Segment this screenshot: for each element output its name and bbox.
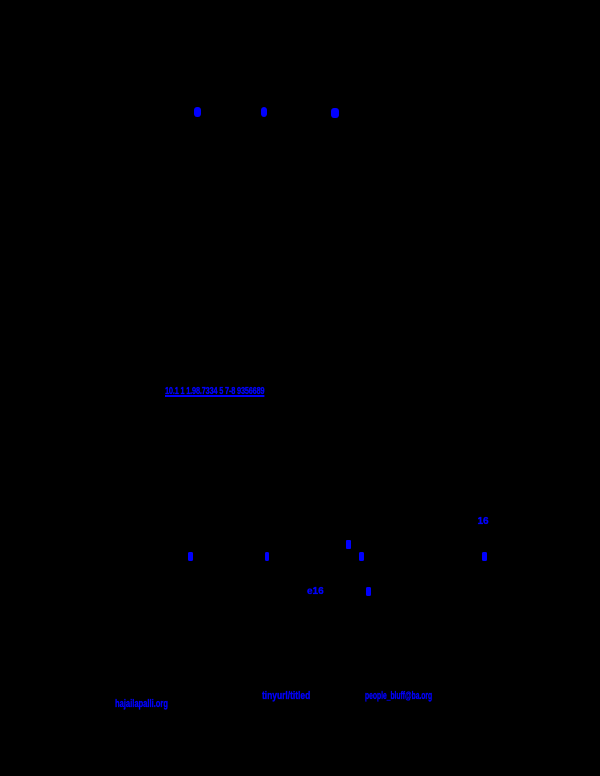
author profile icon 2 [261, 107, 268, 117]
article number link [307, 586, 324, 597]
author profile icon 1 [194, 107, 202, 117]
footer email link [115, 698, 168, 710]
superscript digit [346, 540, 351, 549]
issue digit 4 [482, 552, 487, 561]
footer citation link 2 [365, 690, 432, 702]
issue digit 3 [359, 552, 364, 561]
page digit [366, 587, 371, 596]
author profile icon 3 [331, 108, 339, 118]
footer citation link 1 [262, 690, 310, 702]
volume number link [478, 516, 489, 527]
issue digit 1 [188, 552, 193, 561]
issue digit 2 [265, 552, 270, 561]
doi hyperlink [165, 386, 264, 397]
